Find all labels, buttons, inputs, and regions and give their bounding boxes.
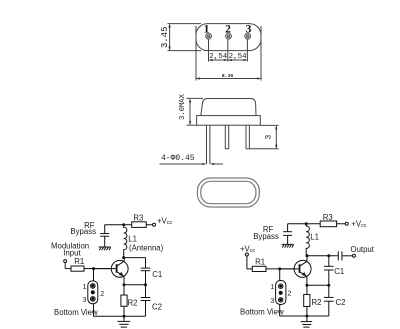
svg-text:C2: C2 [336,298,346,307]
svg-text:cc: cc [361,223,367,229]
svg-text:3: 3 [270,298,274,305]
svg-text:2,54: 2,54 [229,53,248,61]
svg-text:2: 2 [225,23,231,35]
svg-text:8.36: 8.36 [222,73,234,79]
svg-text:R3: R3 [323,213,333,222]
svg-text:R1: R1 [74,257,84,266]
svg-text:2,54: 2,54 [209,53,228,61]
svg-text:3: 3 [246,23,252,35]
svg-text:Bottom View: Bottom View [54,308,98,317]
svg-text:3.45: 3.45 [160,26,170,48]
svg-text:3: 3 [83,297,87,304]
svg-text:Bottom View: Bottom View [240,307,284,316]
svg-text:1: 1 [204,23,210,35]
svg-text:2: 2 [288,291,292,298]
svg-text:1: 1 [83,284,87,291]
svg-text:4-Φ0.45: 4-Φ0.45 [161,154,195,163]
svg-text:L1: L1 [128,234,137,243]
svg-text:(Antenna): (Antenna) [129,244,164,253]
svg-text:R3: R3 [133,213,143,222]
svg-text:2: 2 [100,291,104,298]
svg-text:R1: R1 [255,258,265,267]
svg-text:3.0MAX: 3.0MAX [179,93,187,120]
svg-text:1: 1 [270,284,274,291]
svg-text:C1: C1 [334,267,344,276]
svg-text:C1: C1 [152,270,162,279]
svg-text:C2: C2 [152,302,162,311]
svg-text:Output: Output [351,245,375,254]
svg-text:Bypass: Bypass [70,227,96,236]
svg-text:3: 3 [264,135,274,140]
svg-text:Bypass: Bypass [253,232,279,241]
svg-text:R2: R2 [128,299,138,308]
svg-text:R2: R2 [312,298,322,307]
svg-text:cc: cc [167,220,173,226]
svg-text:cc: cc [250,248,256,254]
svg-text:L1: L1 [310,232,319,241]
